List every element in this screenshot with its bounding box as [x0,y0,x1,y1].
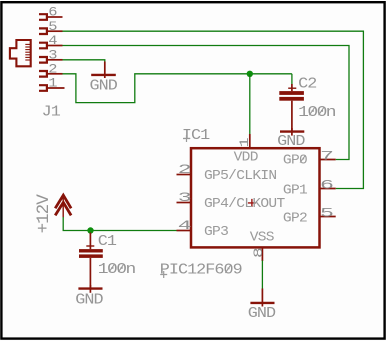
svg-text:GND: GND [90,77,118,94]
capacitor C2 [279,84,304,131]
svg-text:6: 6 [48,6,57,21]
svg-text:4: 4 [48,34,57,49]
svg-text:7: 7 [320,148,334,163]
wire junction to IC pin1 VDD [249,74,251,135]
svg-text:2: 2 [178,162,192,177]
connector J1 jack body [10,40,31,66]
wire J1 pin3 to GND [63,60,105,63]
svg-text:GP2: GP2 [283,211,307,226]
IC1 box PIC12F609 [191,148,320,247]
J1 refdes label [42,103,61,120]
J1 pad pin 4 [39,34,63,49]
IC pin 3 GP4/CLKOUT [177,190,285,212]
svg-text:GP1: GP1 [283,183,307,198]
J1 pad pin 3 [39,48,63,63]
IC1 refdes label [182,127,210,144]
C2 refdes label [298,75,317,92]
svg-text:+12V: +12V [35,194,54,234]
svg-text:8: 8 [252,247,266,258]
svg-text:5: 5 [48,20,57,35]
svg-text:5: 5 [320,205,334,220]
svg-text:GP5/CLKIN: GP5/CLKIN [204,168,277,183]
svg-text:1: 1 [48,77,57,92]
svg-text:3: 3 [48,48,57,63]
wire J1 pin4 to IC pin7 GP0 [63,46,350,160]
svg-text:GP4/CLKOUT: GP4/CLKOUT [204,196,285,211]
svg-text:100n: 100n [298,104,336,121]
wire IC pin8 to GND [261,261,263,290]
J1 pad pin 6 [39,6,63,21]
svg-text:4: 4 [178,218,192,233]
svg-text:100n: 100n [98,260,136,277]
J1 pad pin 2 [39,62,63,77]
svg-text:2: 2 [48,62,57,77]
IC pin 7 GP0 [283,148,336,168]
wire +12V to IC pin4 GP3 [63,217,176,231]
wire C2 top lead (net) [291,74,293,85]
IC1 value label PIC12F609 [160,262,243,279]
ground GND below C2 [277,128,305,150]
svg-text:GP0: GP0 [283,153,307,168]
ground GND below C1 [75,285,103,308]
supply +12V [35,194,71,234]
IC pin 5 GP2 (stub) [283,205,336,226]
C1 value label 100n [98,260,136,277]
capacitor C1 [79,233,103,289]
IC1 origin cross [248,199,256,207]
J1 pad pin 1 [39,77,65,92]
IC pin 8 VSS (bottom) [250,230,274,261]
wire J1 pin5 to IC pin6 GP1 [63,31,364,188]
J1 pad pin 5 [39,20,63,35]
svg-text:1: 1 [238,137,252,147]
junction at C1 [87,227,93,233]
svg-text:3: 3 [178,190,192,205]
ground GND at IC pin8 [248,289,276,322]
svg-text:PIC12F609: PIC12F609 [160,262,243,279]
svg-text:C1: C1 [98,233,117,250]
svg-text:VDD: VDD [234,150,258,165]
IC pin 2 GP5/CLKIN [177,162,277,184]
IC pin 1 VDD (top) [234,134,258,165]
IC pin 6 GP1 [283,177,336,198]
junction at VDD net [247,71,253,77]
wire J1 pin2 to node VDD net [63,74,292,103]
svg-text:GND: GND [248,305,276,322]
svg-text:GP3: GP3 [204,224,228,239]
svg-text:C2: C2 [298,75,317,92]
IC pin 4 GP3 [177,218,229,240]
svg-text:VSS: VSS [250,230,274,245]
C1 refdes label [98,233,117,250]
svg-text:J1: J1 [42,103,61,120]
svg-text:6: 6 [320,177,334,192]
ground GND at J1 pin3 [90,62,118,95]
C2 value label 100n [298,104,336,121]
svg-text:GND: GND [75,291,103,308]
